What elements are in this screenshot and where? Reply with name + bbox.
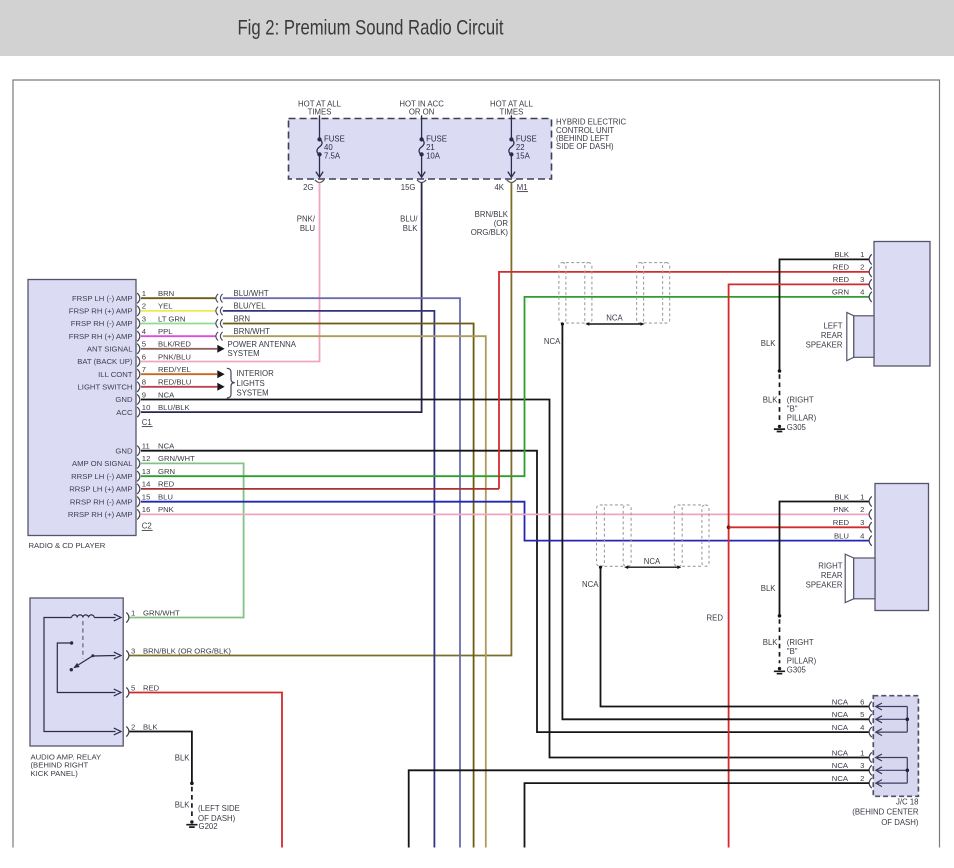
wire BLU radio pin 15 to right speaker pin 4	[141, 502, 870, 541]
left rear speaker connector box	[874, 242, 930, 367]
relay pin 3 terminal	[126, 650, 129, 660]
wire BRN/BLK fuse 22 to relay pin 3	[130, 183, 512, 656]
svg-text:LIGHT SWITCH: LIGHT SWITCH	[78, 383, 133, 392]
svg-text:NCA: NCA	[832, 710, 849, 719]
svg-text:SIDE OF DASH): SIDE OF DASH)	[556, 142, 614, 151]
wire BRN splice to bottom edge	[223, 324, 474, 848]
svg-text:GND: GND	[115, 395, 133, 404]
wire BRN/WHT splice to bottom edge	[223, 336, 486, 847]
relay actuator dashed link	[82, 621, 84, 659]
svg-text:1: 1	[860, 748, 864, 757]
J/C 18 pin 4 terminal	[869, 727, 872, 737]
fuse 22 15A	[508, 115, 515, 177]
svg-text:5: 5	[860, 710, 864, 719]
interior lights brace	[227, 368, 235, 398]
fuse 21 10A	[418, 115, 425, 177]
wire BLK relay pin 2 to ground splice	[130, 732, 192, 784]
svg-text:FRSP RH (-) AMP: FRSP RH (-) AMP	[71, 319, 133, 328]
svg-text:(BEHIND CENTER: (BEHIND CENTER	[852, 808, 919, 817]
relay coil wiring to pins 1 and 2	[94, 617, 115, 619]
radio pin 9 terminal	[137, 394, 140, 404]
wire PPL radio pin 4 to splice	[141, 335, 216, 337]
svg-text:GRN: GRN	[832, 288, 849, 297]
radio pin 10 terminal	[137, 407, 140, 417]
svg-text:2: 2	[142, 302, 146, 311]
svg-text:13: 13	[142, 467, 151, 476]
J/C 18 pin 2 terminal	[869, 778, 872, 788]
svg-text:BAT (BACK UP): BAT (BACK UP)	[77, 357, 133, 366]
svg-text:NCA: NCA	[832, 723, 849, 732]
svg-text:RED: RED	[833, 518, 850, 527]
svg-text:BLK: BLK	[175, 801, 191, 810]
svg-text:NCA: NCA	[582, 580, 599, 589]
relay switch blade and pin 3	[93, 655, 116, 658]
svg-text:RED: RED	[143, 683, 160, 692]
svg-text:G305: G305	[787, 666, 807, 675]
fuse 40 7.5A	[316, 115, 323, 177]
J/C 18 internal bus upper	[906, 707, 908, 733]
HECU pin connector half-circle	[507, 180, 516, 183]
ground wire dashed (left speaker)	[779, 374, 781, 420]
J/C 18 internal bus lower	[906, 758, 908, 784]
svg-text:15G: 15G	[401, 183, 416, 192]
svg-text:FRSP LH (-) AMP: FRSP LH (-) AMP	[72, 294, 133, 303]
svg-text:ANT SIGNAL: ANT SIGNAL	[87, 345, 133, 354]
wire RED right speaker pin 3	[729, 526, 870, 528]
svg-text:3: 3	[860, 275, 864, 284]
svg-text:RRSP LH (+) AMP: RRSP LH (+) AMP	[69, 485, 132, 494]
svg-text:BRN: BRN	[234, 314, 250, 323]
svg-text:PILLAR): PILLAR)	[787, 656, 817, 665]
HECU pin connector half-circle	[315, 180, 324, 183]
svg-text:1: 1	[142, 289, 146, 298]
radio pin 13 terminal	[137, 471, 140, 481]
radio pin 14 terminal	[137, 484, 140, 494]
relay pin 5 terminal	[126, 687, 129, 697]
svg-text:RED: RED	[158, 480, 175, 489]
svg-text:PNK/BLU: PNK/BLU	[158, 352, 191, 361]
svg-text:BRN/BLK (OR ORG/BLK): BRN/BLK (OR ORG/BLK)	[143, 646, 231, 655]
shield capsules right pair A	[597, 505, 605, 566]
wire RED/BLU radio pin 8 to interior lights	[141, 386, 217, 388]
svg-text:2: 2	[131, 722, 135, 731]
svg-text:(LEFT SIDE: (LEFT SIDE	[198, 804, 240, 813]
svg-text:FUSE: FUSE	[324, 134, 345, 143]
wire YEL radio pin 2 to splice	[141, 310, 216, 312]
svg-text:GRN/WHT: GRN/WHT	[158, 454, 195, 463]
svg-text:LT GRN: LT GRN	[158, 314, 185, 323]
svg-text:FRSP RH (+) AMP: FRSP RH (+) AMP	[69, 332, 133, 341]
hybrid electric control unit box	[289, 119, 552, 180]
svg-text:9: 9	[142, 390, 146, 399]
svg-text:SYSTEM: SYSTEM	[237, 389, 269, 398]
svg-text:"B": "B"	[787, 647, 798, 656]
svg-text:SYSTEM: SYSTEM	[228, 349, 260, 358]
svg-text:4: 4	[860, 723, 865, 732]
svg-text:PPL: PPL	[158, 327, 173, 336]
svg-text:M1: M1	[517, 183, 528, 192]
svg-text:4K: 4K	[494, 183, 504, 192]
right speaker pin 2 terminal	[869, 509, 872, 519]
svg-text:7: 7	[142, 365, 146, 374]
radio pin 4 terminal	[137, 331, 140, 341]
wire GRN/WHT radio pin 12 to relay pin 1	[130, 463, 244, 617]
svg-text:NCA: NCA	[832, 774, 849, 783]
relay pin 1 terminal	[126, 612, 129, 622]
svg-text:RRSP LH (-) AMP: RRSP LH (-) AMP	[71, 472, 132, 481]
svg-text:RIGHT: RIGHT	[818, 562, 842, 571]
wire PNK/BLU fuse 40 to radio pin 6	[141, 183, 320, 362]
svg-text:NCA: NCA	[606, 314, 623, 323]
svg-text:NCA: NCA	[832, 748, 849, 757]
svg-text:8: 8	[142, 378, 146, 387]
radio pin 6 terminal	[137, 356, 140, 366]
J/C 18 pin 1 terminal	[869, 752, 872, 762]
svg-text:BLK: BLK	[763, 395, 779, 404]
shield NCA jumper (right speaker)	[627, 566, 678, 568]
svg-text:FRSP RH (+) AMP: FRSP RH (+) AMP	[69, 307, 133, 316]
wire BLU/YEL splice to bottom edge	[223, 311, 435, 848]
arrow to power antenna system	[217, 345, 224, 353]
svg-text:BLK: BLK	[175, 753, 191, 762]
svg-text:11: 11	[142, 442, 150, 451]
svg-text:ORG/BLK): ORG/BLK)	[471, 228, 509, 237]
svg-text:BLU/WHT: BLU/WHT	[234, 289, 269, 298]
shield capsules left pair B	[637, 263, 644, 324]
radio pin 12 terminal	[137, 458, 140, 468]
right rear speaker connector box	[875, 484, 929, 611]
svg-text:RED: RED	[833, 263, 850, 272]
right speaker pin 4 terminal	[869, 536, 872, 546]
wire GRN radio pin 13 to left speaker pin 4	[141, 297, 870, 476]
svg-text:TIMES: TIMES	[499, 108, 523, 117]
svg-text:10A: 10A	[426, 152, 441, 161]
wire BRN radio pin 1 to splice	[141, 297, 216, 299]
right speaker cone icon	[845, 554, 854, 602]
svg-text:KICK PANEL): KICK PANEL)	[31, 769, 79, 778]
svg-text:J/C 18: J/C 18	[896, 797, 919, 806]
radio pin 3 terminal	[137, 318, 140, 328]
svg-text:SPEAKER: SPEAKER	[806, 581, 843, 590]
svg-text:6: 6	[142, 352, 146, 361]
left speaker magnet icon	[854, 316, 874, 358]
splice S4	[216, 332, 223, 341]
svg-text:BLK: BLK	[834, 250, 849, 259]
wire NCA J/C 18 pin 2 to bottom edge	[525, 783, 870, 847]
svg-text:4: 4	[860, 531, 865, 540]
svg-text:INTERIOR: INTERIOR	[237, 369, 275, 378]
J/C 18 pin 3 terminal	[869, 765, 872, 775]
svg-text:C2: C2	[142, 522, 152, 531]
shield capsules left pair A	[559, 263, 566, 324]
splice dot right speaker ground	[778, 614, 782, 618]
svg-text:FUSE: FUSE	[426, 134, 447, 143]
svg-text:BRN/BLK: BRN/BLK	[475, 210, 509, 219]
radio pin 15 terminal	[137, 497, 140, 507]
svg-text:LIGHTS: LIGHTS	[237, 379, 265, 388]
svg-text:1: 1	[860, 250, 864, 259]
splice S1	[216, 294, 223, 303]
svg-text:BLU: BLU	[158, 493, 173, 502]
wire BLK left speaker pin 1 to ground splice	[780, 259, 870, 371]
J/C 18 pin 6 terminal	[869, 701, 872, 711]
left speaker pin 2 terminal	[869, 267, 872, 277]
wire BLK right speaker pin 1 to ground splice	[780, 502, 870, 616]
J/C 18 pin 5 terminal	[869, 714, 872, 724]
wire RED radio pin 14 (dark segment)	[141, 488, 499, 490]
ground wire dashed (right speaker)	[779, 619, 781, 663]
svg-text:15: 15	[142, 493, 151, 502]
svg-text:REAR: REAR	[821, 331, 843, 340]
wire NCA left shield drain to J/C 18 pin 5	[562, 324, 869, 719]
svg-text:NCA: NCA	[644, 557, 661, 566]
svg-text:RRSP RH (+) AMP: RRSP RH (+) AMP	[68, 510, 133, 519]
svg-text:BLK: BLK	[403, 224, 419, 233]
splice S2	[216, 307, 223, 316]
svg-text:RED/YEL: RED/YEL	[158, 365, 192, 374]
wire NCA radio pin 9 to J/C 18 pin 1	[141, 400, 869, 758]
svg-text:BLK: BLK	[143, 722, 158, 731]
svg-text:PNK: PNK	[833, 505, 850, 514]
relay pin 2 terminal	[126, 726, 129, 736]
svg-text:AMP ON SIGNAL: AMP ON SIGNAL	[72, 459, 133, 468]
svg-text:6: 6	[860, 697, 864, 706]
svg-text:Fig 2: Premium Sound Radio Cir: Fig 2: Premium Sound Radio Circuit	[238, 17, 504, 40]
svg-text:NCA: NCA	[158, 390, 175, 399]
svg-text:(OR: (OR	[494, 219, 509, 228]
svg-text:5: 5	[131, 683, 135, 692]
radio pin 7 terminal	[137, 369, 140, 379]
svg-text:BLK: BLK	[761, 584, 777, 593]
svg-text:40: 40	[324, 143, 333, 152]
svg-text:2: 2	[860, 263, 864, 272]
relay contact to pin 5	[70, 641, 73, 644]
svg-text:GRN/WHT: GRN/WHT	[143, 608, 180, 617]
svg-text:2: 2	[860, 505, 864, 514]
svg-text:GND: GND	[115, 446, 133, 455]
svg-text:1: 1	[131, 608, 135, 617]
svg-text:TIMES: TIMES	[308, 108, 332, 117]
svg-text:12: 12	[142, 454, 151, 463]
svg-text:G305: G305	[787, 423, 807, 432]
svg-text:1: 1	[860, 492, 864, 501]
svg-text:RED/BLU: RED/BLU	[158, 378, 191, 387]
radio and cd player box	[28, 280, 136, 536]
ground wire dashed (relay)	[191, 787, 193, 818]
svg-text:7.5A: 7.5A	[324, 152, 341, 161]
svg-text:RED: RED	[707, 613, 724, 622]
wire RED left speaker pin 3 to bottom edge	[729, 284, 870, 847]
svg-text:PNK: PNK	[158, 505, 175, 514]
shield NCA jumper (left speaker)	[588, 323, 641, 325]
splice S3	[216, 319, 223, 328]
svg-text:NCA: NCA	[544, 337, 561, 346]
right speaker pin 3 terminal	[869, 522, 872, 532]
radio pin 2 terminal	[137, 306, 140, 316]
wire BLU/BLK fuse 21 to radio pin 10	[141, 183, 422, 413]
svg-text:3: 3	[142, 314, 146, 323]
svg-text:BLK: BLK	[763, 638, 779, 647]
arrow interior lights (pin 7)	[217, 370, 224, 378]
svg-text:NCA: NCA	[158, 442, 175, 451]
svg-text:PNK/: PNK/	[297, 214, 316, 223]
svg-text:BLK: BLK	[834, 492, 849, 501]
junction connector J/C 18 box	[873, 696, 918, 797]
radio pin 5 terminal	[137, 344, 140, 354]
radio pin 1 terminal	[137, 293, 140, 303]
splice dot left speaker ground	[778, 369, 782, 373]
svg-text:BRN: BRN	[158, 289, 174, 298]
svg-text:LEFT: LEFT	[823, 322, 842, 331]
relay coil	[72, 615, 95, 618]
ground G305 (right)	[774, 667, 785, 674]
shield capsules right pair B	[674, 505, 682, 566]
svg-text:ILL CONT: ILL CONT	[98, 370, 133, 379]
svg-text:G202: G202	[199, 822, 218, 831]
svg-text:BLU: BLU	[300, 224, 316, 233]
right speaker pin 1 terminal	[869, 496, 872, 506]
svg-text:5: 5	[142, 340, 146, 349]
svg-text:2: 2	[860, 774, 864, 783]
svg-text:(RIGHT: (RIGHT	[787, 396, 814, 405]
left speaker pin 1 terminal	[869, 254, 872, 264]
left speaker pin 4 terminal	[869, 292, 872, 302]
svg-text:RADIO & CD PLAYER: RADIO & CD PLAYER	[29, 541, 106, 550]
svg-text:BLU/YEL: BLU/YEL	[234, 302, 267, 311]
svg-text:BLK/RED: BLK/RED	[158, 340, 191, 349]
svg-text:RED: RED	[833, 275, 850, 284]
wire PNK radio pin 16 to right speaker pin 2	[141, 513, 870, 515]
svg-text:"B": "B"	[787, 405, 798, 414]
svg-text:SPEAKER: SPEAKER	[806, 341, 843, 350]
svg-text:NCA: NCA	[832, 697, 849, 706]
svg-text:10: 10	[142, 403, 151, 412]
title bar	[0, 0, 954, 56]
wire BLK/RED radio pin 5 to power antenna	[141, 348, 217, 350]
wire NCA right shield drain to J/C 18 pin 6	[601, 567, 870, 706]
ground G202	[186, 820, 197, 827]
svg-text:POWER ANTENNA: POWER ANTENNA	[228, 340, 297, 349]
audio amp relay box	[30, 598, 123, 746]
svg-text:BRN/WHT: BRN/WHT	[234, 327, 271, 336]
svg-text:OF DASH): OF DASH)	[881, 818, 919, 827]
svg-text:OR ON: OR ON	[409, 108, 435, 117]
wire LT GRN radio pin 3 to splice	[141, 323, 216, 325]
svg-text:3: 3	[860, 518, 864, 527]
radio pin 8 terminal	[137, 382, 140, 392]
svg-text:NCA: NCA	[832, 761, 849, 770]
svg-text:22: 22	[516, 143, 525, 152]
svg-text:ACC: ACC	[116, 408, 133, 417]
wire BLU/WHT splice to bottom edge	[223, 298, 460, 847]
svg-text:21: 21	[426, 143, 435, 152]
svg-text:BLU/BLK: BLU/BLK	[158, 403, 190, 412]
svg-text:BLK: BLK	[761, 339, 777, 348]
svg-text:4: 4	[142, 327, 147, 336]
svg-text:14: 14	[142, 480, 151, 489]
ground G305 (left)	[774, 425, 785, 432]
svg-text:15A: 15A	[516, 152, 531, 161]
wire RED/YEL radio pin 7 to interior lights	[141, 373, 217, 375]
svg-text:FUSE: FUSE	[516, 134, 537, 143]
junction dot red at right speaker pin 3	[727, 525, 731, 529]
svg-text:16: 16	[142, 505, 151, 514]
right speaker magnet icon	[854, 558, 875, 599]
svg-text:(RIGHT: (RIGHT	[787, 638, 814, 647]
arrow interior lights (pin 8)	[217, 383, 224, 391]
left speaker cone icon	[847, 312, 854, 360]
wire RED relay pin 5 to bottom edge	[130, 693, 283, 848]
svg-text:GRN: GRN	[158, 467, 175, 476]
svg-text:BLU/: BLU/	[400, 214, 418, 223]
svg-text:PILLAR): PILLAR)	[787, 414, 817, 423]
HECU pin connector half-circle	[417, 180, 426, 183]
wire NCA J/C 18 pin 3 to bottom edge	[409, 770, 870, 847]
svg-text:3: 3	[860, 761, 864, 770]
svg-text:RRSP RH (-) AMP: RRSP RH (-) AMP	[70, 497, 133, 506]
svg-text:REAR: REAR	[821, 571, 843, 580]
wire RED to left speaker pin 2	[499, 272, 870, 489]
svg-text:YEL: YEL	[158, 302, 173, 311]
splice dot relay ground	[190, 782, 194, 786]
svg-text:3: 3	[131, 646, 135, 655]
svg-text:2G: 2G	[303, 183, 313, 192]
svg-text:4: 4	[860, 288, 865, 297]
svg-text:C1: C1	[142, 418, 152, 427]
radio pin 11 terminal	[137, 446, 140, 456]
left speaker pin 3 terminal	[869, 279, 872, 289]
radio pin 16 terminal	[137, 509, 140, 519]
wire NCA radio pin 11 to J/C 18 pin 4	[141, 451, 869, 732]
svg-text:BLU: BLU	[834, 531, 849, 540]
